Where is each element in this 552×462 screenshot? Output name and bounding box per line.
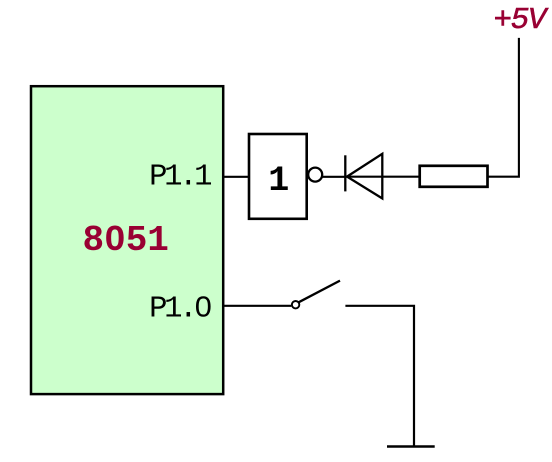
switch S1 contact circle [292,301,299,308]
inverter U2 body [249,134,307,219]
inverter U2 output bubble [308,168,322,182]
diode D1 cathode bar [344,155,346,191]
svg-text:P1.1: P1.1 [149,160,211,194]
wire bubble to diode cathode [323,176,346,178]
svg-text:8051: 8051 [83,220,169,261]
wire P1.0 to switch contact [222,305,291,307]
wire diode to resistor [346,176,420,178]
wire resistor to +5V riser [488,38,519,177]
wire P1.1 to inverter input [222,176,249,178]
ground bar [387,445,435,448]
switch S1 lever [299,281,340,303]
svg-text:P1.0: P1.0 [149,293,211,327]
IC U1 8051 body [31,86,223,394]
resistor R1 [420,166,488,187]
diode D1 triangle [347,154,382,199]
svg-text:1: 1 [268,161,289,201]
wire switch to ground drop [345,306,414,447]
svg-text:+5V: +5V [494,3,549,38]
